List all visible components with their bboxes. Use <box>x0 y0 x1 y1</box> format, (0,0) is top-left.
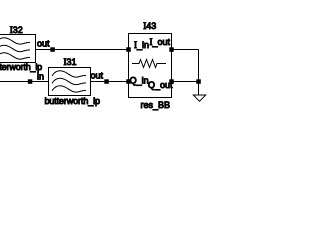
resistor icon inside I43 <box>132 60 166 68</box>
wire I31.out to I43.Q_in <box>91 81 129 83</box>
svg-text:I_in: I_in <box>134 40 149 50</box>
ground symbol triangle <box>193 95 205 101</box>
wire I32.out to I43.I_in <box>36 49 129 51</box>
svg-text:in: in <box>37 72 44 82</box>
subcircuit block I43 (res_BB) <box>129 34 172 98</box>
filter icon waves of I31 <box>52 71 86 92</box>
filter block I32 (butterworth_lp), partially off-canvas left <box>0 35 36 63</box>
pin dot Q_in <box>126 79 131 84</box>
node dot ground junction <box>196 79 201 84</box>
svg-text:I43: I43 <box>143 21 156 31</box>
pin dot I_in <box>126 47 131 52</box>
wire I43.Q_out to ground junction <box>172 81 199 83</box>
svg-text:butterworth_lp: butterworth_lp <box>45 96 100 106</box>
svg-text:I_out: I_out <box>150 37 171 47</box>
svg-text:Q_out: Q_out <box>148 80 173 90</box>
node dot I31.in <box>28 79 33 84</box>
svg-text:Q_in: Q_in <box>130 76 149 86</box>
wire right vertical <box>198 50 200 82</box>
wire I43.I_out to right vertical <box>172 49 199 51</box>
node dot I31.out <box>104 79 109 84</box>
svg-text:I32: I32 <box>10 25 23 35</box>
wire left edge to I31.in <box>0 81 49 83</box>
svg-text:out: out <box>37 39 50 49</box>
svg-text:I31: I31 <box>64 57 77 67</box>
node dot I32.out <box>50 47 55 52</box>
svg-text:butterworth_lp: butterworth_lp <box>0 62 42 72</box>
svg-text:out: out <box>91 71 104 81</box>
pin dot I_out <box>169 47 174 52</box>
svg-text:res_BB: res_BB <box>141 100 171 110</box>
filter icon waves of I32 <box>0 38 30 59</box>
pin dot Q_out <box>169 79 174 84</box>
filter block I31 (butterworth_lp) <box>49 68 91 96</box>
ground stem <box>198 82 200 96</box>
